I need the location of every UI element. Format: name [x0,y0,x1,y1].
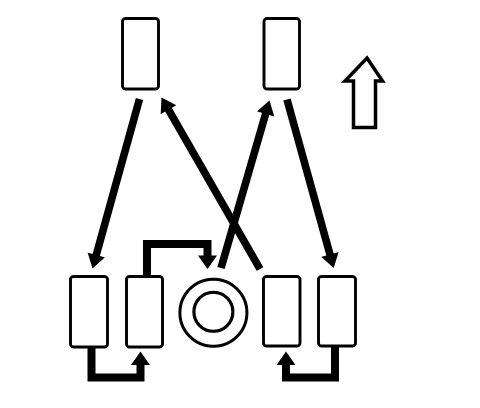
elbow arrow R1 to R2 shaft [92,347,141,378]
donut outer circle [180,279,247,346]
box top-right B [264,19,300,90]
arrow R3 to A head [161,98,177,115]
arrow A to R1 shaft [95,99,140,260]
elbow arrow R4 to R3 shaft [286,347,335,378]
elbow arrow R2 to donut head [198,256,217,270]
arrow R3 to A shaft [166,105,260,269]
elbow arrow R4 to R3 head [277,352,296,366]
hollow up arrow (legend) [345,58,383,128]
box bottom-1 R1 [71,277,108,348]
box bottom-3 R3 [264,277,301,347]
box top-left A [123,19,159,90]
arrow donut to B shaft [221,109,267,268]
donut inner circle [194,292,233,331]
arrow B to R4 shaft [287,100,331,260]
arrow donut to B head [257,101,274,117]
elbow arrow R1 to R2 head [131,352,150,366]
arrow B to R4 head [321,252,338,268]
box bottom-4 R4 [319,277,356,347]
box bottom-2 R2 [127,277,163,348]
arrow A to R1 head [88,253,105,269]
elbow arrow R2 to donut shaft [147,244,208,278]
